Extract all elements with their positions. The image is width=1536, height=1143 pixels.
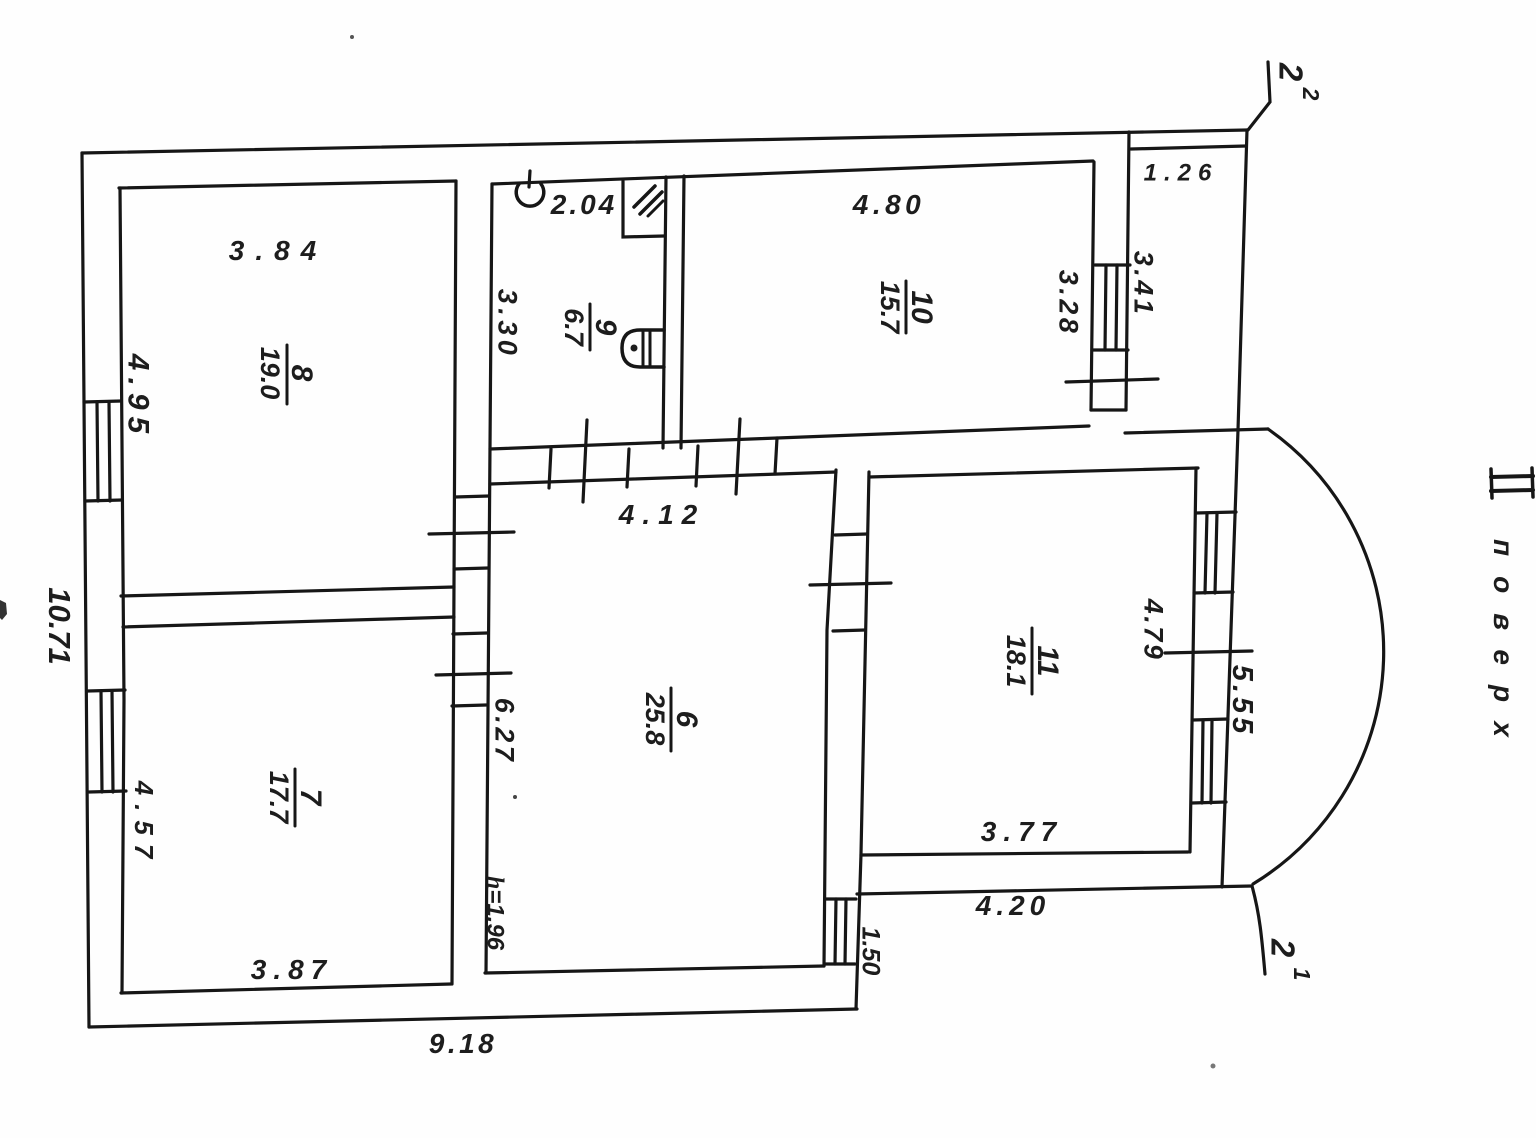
svg-text:6.7: 6.7: [559, 308, 589, 348]
fraction bar room 10: [905, 281, 908, 333]
svg-text:4.20: 4.20: [975, 890, 1051, 921]
svg-text:2.04: 2.04: [550, 189, 618, 220]
noise dot middle: [513, 795, 517, 799]
svg-text:4.80: 4.80: [852, 189, 926, 220]
svg-text:6.27: 6.27: [490, 698, 520, 765]
wire: outer bottom wall: [89, 1009, 857, 1027]
node: tick between right windows: [1165, 651, 1252, 653]
svg-text:3.28: 3.28: [1054, 270, 1084, 337]
wire: room8 inner top wall: [119, 181, 456, 188]
fraction bar room 8: [286, 345, 289, 404]
label room 11: [1001, 635, 1064, 688]
svg-text:3.87: 3.87: [251, 954, 334, 985]
wire: section leader 2-1 bottom: [1252, 886, 1265, 974]
svg-text:4.12: 4.12: [618, 499, 706, 530]
node: flue hatch strokes: [634, 186, 655, 207]
fraction bar room 9: [589, 304, 592, 350]
wire: room8 bottom wall: [121, 587, 454, 596]
wire: room11 bottom wall: [861, 852, 1188, 855]
wire: room9-10 bottom wall: [490, 426, 1089, 449]
svg-text:9.18: 9.18: [429, 1028, 498, 1059]
svg-text:3.30: 3.30: [493, 289, 523, 360]
svg-text:3.84: 3.84: [229, 235, 328, 266]
window: right window A caps: [1196, 512, 1236, 513]
svg-text:1.50: 1.50: [856, 927, 884, 976]
svg-text:2: 2: [1298, 87, 1324, 101]
window: left window W1 mullions: [97, 402, 98, 501]
svg-text:6: 6: [670, 711, 703, 728]
node: sink bowl: [516, 184, 544, 206]
svg-text:1: 1: [1289, 968, 1315, 981]
wire: partition room9/room10 left line: [663, 177, 666, 448]
wire: mid wall right line hall side: [486, 184, 492, 973]
svg-text:7: 7: [294, 789, 327, 807]
node: door cap 3b: [833, 630, 865, 631]
window: right window A mullions: [1205, 513, 1207, 593]
svg-text:15.7: 15.7: [875, 281, 905, 336]
window: 1.50 mullions: [835, 899, 836, 964]
node: door tick room7: [436, 673, 511, 675]
wire: hall right wall inner line: [824, 470, 836, 966]
label room 8: [255, 347, 318, 400]
wire: corridor bottom wall to arc: [1125, 429, 1268, 433]
node: tick c on hall wall: [627, 449, 629, 487]
node: room9 closet box: [623, 181, 664, 237]
svg-text:4.57: 4.57: [129, 780, 159, 868]
wire: partition room9/room10 right line: [681, 176, 684, 448]
wire: room11 top wall: [869, 468, 1198, 477]
node: tick f on hall wall: [775, 438, 777, 474]
window: left window W2 mullions: [101, 691, 102, 792]
label II floor numeral strokes: [1491, 476, 1533, 477]
fraction bar room 6: [670, 688, 673, 751]
svg-text:19.0: 19.0: [255, 347, 285, 400]
wire: outer top wall: [82, 130, 1247, 153]
svg-text:17.7: 17.7: [264, 771, 294, 826]
svg-text:10: 10: [905, 290, 938, 324]
noise mark left edge: [0, 600, 7, 620]
window: room10/corridor mullions: [1105, 265, 1106, 350]
window: 1.50 window caps: [826, 897, 856, 900]
wire: outer left wall: [82, 153, 89, 1027]
svg-text:3.41: 3.41: [1129, 251, 1159, 318]
node: door tick room8: [429, 532, 514, 534]
svg-text:25.8: 25.8: [640, 692, 670, 746]
wire: section leader 2-2 top: [1248, 62, 1270, 130]
node: bay window arc: [1253, 429, 1384, 884]
svg-text:8: 8: [285, 365, 318, 382]
node: tick b on hall wall: [583, 420, 587, 502]
svg-text:18.1: 18.1: [1001, 635, 1031, 688]
svg-text:4.95: 4.95: [122, 353, 155, 440]
noise dot top: [350, 35, 354, 39]
wire: room6 bottom inner wall: [485, 966, 824, 973]
node: door cap 1b: [454, 568, 488, 569]
svg-text:h=1.96: h=1.96: [482, 876, 509, 951]
window: left window W1 caps: [84, 401, 121, 402]
node: tick d on hall wall: [696, 446, 698, 486]
window: room10/corridor window caps: [1095, 263, 1130, 266]
svg-text:2: 2: [1272, 62, 1309, 82]
node: door cap room10: [1091, 408, 1126, 411]
svg-text:1.26: 1.26: [1144, 159, 1219, 186]
label room 9: [559, 308, 622, 348]
noise dot bottom right: [1211, 1064, 1216, 1069]
label room 7: [264, 771, 327, 826]
svg-text:9: 9: [589, 319, 622, 336]
label room 6: [640, 692, 703, 746]
wire: outer right wall: [1222, 130, 1247, 887]
window: right window B caps: [1193, 719, 1228, 720]
node: toilet dot: [631, 345, 638, 352]
window: left window W2 caps: [88, 690, 125, 691]
wire: room11 right wall: [1190, 468, 1196, 852]
node: sink tap stem: [529, 171, 530, 187]
wire: rooms 9-10 inner top wall: [492, 161, 1093, 184]
svg-text:2: 2: [1264, 938, 1301, 958]
node: door tick room10/corridor: [1066, 379, 1158, 382]
wire: left inner wall rooms 8-7: [120, 188, 124, 993]
svg-text:поверх: поверх: [1488, 539, 1519, 757]
wire: room10 right wall: [1091, 162, 1094, 410]
window: right window B mullions: [1202, 720, 1203, 803]
svg-text:11: 11: [1031, 645, 1064, 676]
svg-text:4.79: 4.79: [1139, 598, 1169, 662]
node: door cap 3a: [835, 534, 867, 535]
node: door cap 1a: [455, 496, 489, 497]
wire: mid wall left line rooms8-7 side: [452, 181, 456, 984]
node: toilet divider lines: [642, 330, 645, 367]
wire: corridor left wall: [1126, 132, 1129, 410]
fraction bar room 7: [294, 769, 297, 826]
node: door cap 2a: [453, 633, 487, 634]
svg-text:5.55: 5.55: [1226, 665, 1258, 737]
node: door cap 2b: [452, 705, 486, 706]
wire: right section bottom outer wall: [857, 886, 1252, 894]
node: tick e on hall wall: [736, 419, 740, 494]
fraction bar room 11: [1031, 628, 1034, 694]
wire: hall right wall outer line: [856, 472, 869, 1009]
label room 10: [875, 281, 938, 336]
node: toilet capsule: [622, 330, 664, 367]
wire: corridor inner top wall: [1131, 146, 1246, 149]
node: tick a on hall wall: [549, 449, 551, 488]
svg-text:3.77: 3.77: [981, 816, 1064, 847]
wire: room7 top wall: [123, 617, 454, 627]
node: door tick room11 hall: [810, 583, 891, 585]
wire: hall top wall lower line: [490, 472, 836, 484]
svg-text:10.71: 10.71: [42, 587, 77, 665]
wire: room7 bottom wall: [121, 984, 451, 993]
